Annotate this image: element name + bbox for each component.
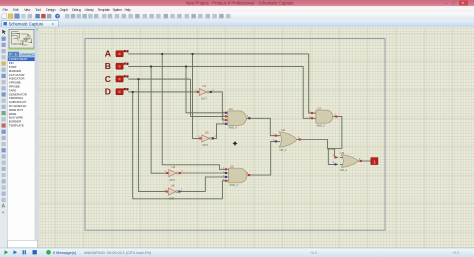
svg-text:U2: U2 [282, 128, 286, 132]
wire U6 out to U5b pin3 [179, 177, 224, 191]
svg-text:A: A [105, 49, 111, 59]
svg-text:×: × [462, 1, 465, 6]
junction on net C at x138 [138, 78, 140, 80]
svg-text:NOT: NOT [201, 97, 207, 101]
not gate U1 (inverts D) [197, 84, 212, 101]
svg-text:Library: Library [85, 8, 94, 12]
logicstate input A [105, 49, 129, 59]
svg-text:+: + [2, 210, 5, 216]
object selector list [8, 57, 36, 248]
title bar [0, 0, 474, 6]
wire D drop to U5b pin4 [133, 92, 225, 199]
svg-text:View: View [24, 8, 31, 12]
svg-text:OR_2: OR_2 [280, 148, 287, 152]
wire U3 out to U4 pin4 [212, 124, 225, 138]
svg-text:C: C [105, 74, 111, 84]
wire A row [128, 53, 309, 55]
overview window [9, 29, 34, 48]
sheet border [85, 39, 385, 231]
sheet tab white box bottom-left [8, 240, 38, 247]
wire D row [128, 91, 197, 93]
junction on net A at x162 [161, 53, 163, 55]
wire U5 out to U5b pin2 [180, 172, 225, 174]
list scrollbar strip [35, 27, 39, 248]
wire C drop to U6 input [138, 79, 166, 191]
left panel [8, 27, 36, 248]
svg-text:AND_4: AND_4 [229, 126, 238, 130]
svg-text:File: File [3, 8, 9, 12]
svg-text:System: System [113, 8, 123, 12]
svg-text:TEMPLATE: TEMPLATE [9, 124, 24, 128]
and gate U7 (2-input top right) [311, 106, 337, 127]
wire C drop to U4 pin2 [191, 79, 225, 116]
svg-text:GRAPHICS: GRAPHICS [20, 52, 35, 56]
step [14, 250, 18, 254]
svg-text:Schematic Capture: Schematic Capture [9, 22, 45, 27]
junction on net D at x133 [132, 91, 134, 93]
svg-text:Graph: Graph [60, 8, 69, 12]
message icon [46, 250, 51, 255]
or gate U9 (right) [334, 151, 362, 172]
wire B row [128, 65, 303, 67]
junction on net B at x151 [150, 66, 152, 68]
wire A drop to U3 input [193, 54, 201, 138]
left tool column [0, 27, 8, 248]
pause [23, 250, 25, 254]
wire U7 out to U9 pin2 [328, 117, 342, 165]
and gate U4 (4-input) [224, 107, 250, 129]
logic probe (output indicator, showing 1) [371, 158, 378, 166]
svg-text:AND_2: AND_2 [317, 123, 326, 127]
svg-text:Help: Help [125, 8, 131, 12]
wire U2 out to U9 pin1 [301, 140, 338, 158]
svg-text:+0.0: +0.0 [452, 251, 459, 255]
svg-text:NOT: NOT [203, 143, 209, 147]
wire B drop to U4 pin1 [186, 66, 224, 112]
svg-text:Template: Template [98, 8, 110, 12]
svg-text:OR_2: OR_2 [340, 168, 347, 172]
svg-text:NOT: NOT [169, 196, 175, 200]
stop [33, 250, 37, 254]
not gate U3 (inverts A) [199, 130, 214, 147]
svg-text:New Project - Proteus 8 Profes: New Project - Proteus 8 Professional - S… [186, 1, 294, 6]
svg-text:D: D [105, 87, 111, 97]
or gate U2 (middle) [275, 128, 301, 152]
svg-text:U1: U1 [203, 84, 207, 88]
svg-text:+0.0: +0.0 [310, 251, 317, 255]
junction on net A at x192.5 [192, 53, 194, 55]
wire U1 out to U4 pin3 [211, 92, 224, 120]
svg-text:U5: U5 [230, 164, 234, 168]
svg-text:AND_4: AND_4 [229, 183, 238, 187]
wire A drop right to U7 [309, 54, 314, 113]
not gate U5 (inverts B) [166, 165, 181, 182]
svg-text:–: – [445, 1, 448, 6]
play [5, 250, 9, 254]
logicstate input C [105, 74, 129, 84]
tab bar [0, 20, 474, 28]
logicstate input B [105, 61, 129, 71]
selector header [8, 51, 36, 56]
svg-text:B: B [105, 61, 111, 71]
menu bar [0, 6, 474, 12]
and gate U5b (4-input bottom) [224, 164, 250, 187]
svg-text:U3: U3 [205, 130, 209, 134]
svg-text:ANIMATING: 00:00:02.1 (CPU loa: ANIMATING: 00:00:02.1 (CPU load 1%) [84, 251, 152, 255]
svg-text:0 Message(s): 0 Message(s) [53, 251, 77, 255]
wire U9 out to probe [358, 160, 371, 162]
origin marker [234, 142, 237, 145]
not gate U6 (inverts C) [166, 184, 181, 201]
green strip [8, 48, 36, 50]
svg-text:Debug: Debug [72, 8, 81, 12]
svg-text:Design: Design [46, 8, 56, 12]
svg-text:L: L [15, 52, 17, 56]
wire U4 out to OR U2 pin1 [246, 118, 278, 135]
wire B drop right to U7 [303, 66, 313, 118]
wire U5b out to OR U2 pin2 [247, 141, 278, 175]
wire C row [128, 78, 190, 80]
svg-text:U6: U6 [171, 184, 175, 188]
svg-text:Tool: Tool [35, 8, 41, 12]
svg-text:Edit: Edit [13, 8, 20, 12]
junction on net B at x186 [185, 66, 187, 68]
logicstate input D [105, 87, 129, 97]
svg-text:NOT: NOT [170, 178, 176, 182]
svg-text:1: 1 [373, 159, 376, 165]
toolbar [0, 13, 474, 20]
pin number digits [164, 90, 361, 192]
window controls [445, 0, 468, 5]
wire A drop to U5b pin1 [162, 54, 224, 169]
svg-text:U5: U5 [172, 165, 176, 169]
svg-text:□: □ [452, 1, 455, 6]
wire B drop to U5 input [151, 66, 166, 173]
